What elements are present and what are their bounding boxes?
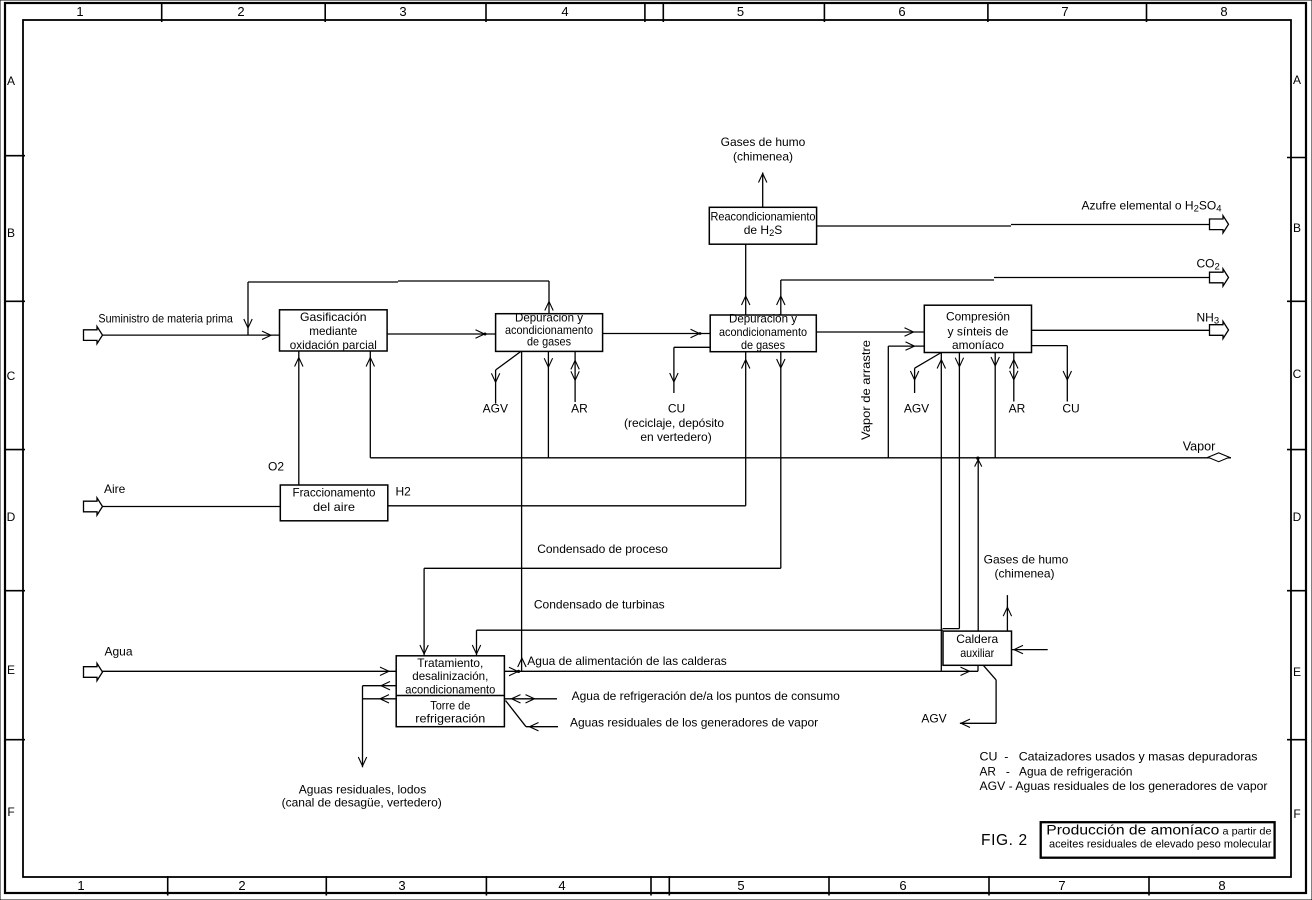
svg-text:y sínteis de: y sínteis de bbox=[948, 324, 1009, 338]
output block arrow CO2 bbox=[1210, 269, 1229, 286]
svg-text:mediante: mediante bbox=[309, 324, 357, 338]
svg-text:CU: CU bbox=[668, 401, 685, 415]
wire cooling water double arrow at Tratamiento bbox=[504, 698, 557, 700]
wire recycle vertical from Depuracion-1 top bbox=[548, 281, 550, 314]
svg-text:3: 3 bbox=[398, 878, 405, 893]
svg-text:A: A bbox=[1293, 73, 1301, 87]
output block arrow NH3 bbox=[1210, 321, 1229, 338]
svg-text:3: 3 bbox=[399, 4, 406, 19]
svg-text:acondicionamento: acondicionamento bbox=[719, 325, 807, 339]
svg-text:C: C bbox=[1293, 367, 1302, 381]
svg-text:a partir de: a partir de bbox=[1223, 825, 1272, 837]
svg-text:CU - Cataizadores usados y: CU - Cataizadores usados y masas depurad… bbox=[980, 750, 1258, 764]
svg-text:acondicionamento: acondicionamento bbox=[405, 682, 495, 696]
wire Azufre output line bbox=[817, 225, 1011, 227]
svg-text:AGV: AGV bbox=[483, 402, 508, 416]
svg-text:2: 2 bbox=[238, 878, 245, 893]
svg-text:7: 7 bbox=[1061, 4, 1068, 19]
wire fuel input into Caldera right bbox=[1012, 649, 1048, 651]
wire steam into Gasificacion bottom from Vapor header bbox=[369, 351, 371, 458]
svg-text:AGV: AGV bbox=[904, 402, 929, 416]
wire CO2 output line bbox=[781, 279, 994, 281]
wire waste drain left from Tratamiento (lower) bbox=[363, 698, 397, 700]
wire boiler feedwater header line bbox=[504, 670, 978, 672]
wire feed line to Gasificacion bbox=[103, 334, 280, 336]
wire boiler feedwater riser into Compresion bbox=[940, 353, 942, 671]
wire CU drain from Compresion right bbox=[1032, 345, 1068, 347]
svg-text:B: B bbox=[1293, 221, 1301, 235]
svg-text:6: 6 bbox=[898, 4, 905, 19]
svg-text:Gases de humo: Gases de humo bbox=[721, 135, 806, 149]
svg-text:Gases de humo: Gases de humo bbox=[984, 553, 1069, 567]
wire AGV drain from Depuracion-1 bottom bbox=[496, 351, 521, 370]
svg-text:4: 4 bbox=[558, 878, 565, 893]
wire steam from Compresion down to Vapor header bbox=[994, 353, 996, 458]
svg-text:Agua: Agua bbox=[105, 645, 133, 659]
process box Tratamiento desalinizacion acondicionamento / Torre de refrigeracion bbox=[396, 656, 504, 727]
wire steam down from Depuracion-1 to Vapor header bbox=[547, 351, 549, 457]
svg-text:FIG. 2: FIG. 2 bbox=[981, 832, 1028, 849]
svg-text:F: F bbox=[7, 805, 14, 819]
process box Compresion y sinteis de amoniaco bbox=[924, 305, 1031, 352]
process box Depuracion y acondicionamento de gases (1) bbox=[496, 314, 603, 352]
svg-text:Aguas residuales de los genera: Aguas residuales de los generadores de v… bbox=[570, 716, 818, 730]
svg-text:Azufre elemental o H2SO4: Azufre elemental o H2SO4 bbox=[1082, 199, 1222, 215]
process box Gasificacion mediante oxidacion parcial bbox=[280, 310, 388, 351]
svg-text:1: 1 bbox=[76, 4, 83, 19]
svg-text:D: D bbox=[1293, 510, 1302, 524]
wire chimney arrow above Reacondicionamiento bbox=[762, 173, 764, 208]
wire CO2 riser from Depuracion-2 top bbox=[780, 280, 782, 315]
svg-text:Condensado de proceso: Condensado de proceso bbox=[537, 542, 668, 556]
wire NH3 output line bbox=[1032, 329, 1210, 331]
wire process condensate down from Depuracion-2 bbox=[780, 352, 782, 569]
svg-text:CU: CU bbox=[1062, 402, 1079, 416]
svg-text:H2: H2 bbox=[396, 485, 412, 499]
svg-text:(chimenea): (chimenea) bbox=[733, 150, 793, 164]
wire Gasificacion to Depuracion-1 bbox=[387, 333, 496, 335]
wire waste drain left from Tratamiento (upper) bbox=[363, 685, 397, 687]
svg-text:desalinización,: desalinización, bbox=[412, 669, 488, 683]
wire recycle vertical drop at feed junction bbox=[247, 282, 249, 335]
svg-text:de gases: de gases bbox=[527, 335, 571, 349]
svg-text:amoníaco: amoníaco bbox=[952, 338, 1004, 352]
svg-text:4: 4 bbox=[561, 4, 568, 19]
wire Vapor header line bbox=[370, 457, 1231, 459]
wire AGV blowdown from Caldera bbox=[983, 665, 996, 680]
svg-text:Agua de alimentación de las ca: Agua de alimentación de las calderas bbox=[527, 654, 726, 668]
svg-text:E: E bbox=[1293, 665, 1301, 679]
wire O2 into Gasificacion bottom bbox=[298, 351, 300, 485]
process box Depuracion y acondicionamento de gases (2) bbox=[710, 315, 816, 352]
svg-text:aceites residuales de elevado: aceites residuales de elevado peso molec… bbox=[1049, 838, 1272, 850]
svg-text:5: 5 bbox=[737, 878, 744, 893]
svg-text:Reacondicionamiento: Reacondicionamiento bbox=[711, 209, 816, 223]
wire chimney arrow above Caldera bbox=[1006, 595, 1008, 631]
title box Produccion de amoniaco bbox=[1041, 822, 1275, 858]
svg-text:Fraccionamento: Fraccionamento bbox=[293, 485, 376, 499]
svg-text:oxidación parcial: oxidación parcial bbox=[290, 338, 377, 352]
wire condensate down from Depuracion-1 (to feedwater header) bbox=[521, 351, 523, 671]
wire steam from Caldera to Vapor header bbox=[977, 458, 979, 631]
svg-text:Condensado de turbinas: Condensado de turbinas bbox=[534, 598, 665, 612]
svg-text:Tratamiento,: Tratamiento, bbox=[417, 656, 483, 670]
process box Caldera auxiliar bbox=[943, 631, 1012, 665]
input block arrow: Aire bbox=[84, 498, 103, 515]
wire H2S vertical between Reacondicionamiento and Depuracion-2 bbox=[745, 244, 747, 315]
svg-text:refrigeración: refrigeración bbox=[415, 712, 485, 726]
svg-text:(canal de desagüe, vertedero): (canal de desagüe, vertedero) bbox=[282, 796, 442, 810]
svg-text:AR: AR bbox=[571, 402, 588, 416]
wire Agua feed line to Tratamiento bbox=[103, 670, 397, 672]
svg-text:del aire: del aire bbox=[313, 500, 355, 514]
wire Condensado de proceso line bbox=[424, 567, 781, 569]
wire AGV return into Tratamiento bbox=[526, 726, 558, 728]
process box Reacondicionamiento de H2S bbox=[709, 207, 816, 244]
svg-text:Torre de: Torre de bbox=[430, 698, 470, 712]
svg-text:Caldera: Caldera bbox=[956, 632, 998, 646]
svg-text:C: C bbox=[7, 369, 16, 383]
wire waste drain vertical to Aguas residuales lodos bbox=[362, 686, 364, 768]
svg-text:B: B bbox=[7, 226, 15, 240]
svg-text:de H2S: de H2S bbox=[744, 223, 783, 238]
svg-text:Agua de refrigeración de/a los: Agua de refrigeración de/a los puntos de… bbox=[572, 689, 840, 703]
wire Depuracion-1 to Depuracion-2 bbox=[603, 333, 711, 335]
svg-text:D: D bbox=[7, 510, 16, 524]
wire AGV drain from Compresion bottom bbox=[915, 353, 942, 369]
svg-text:AR - Agua de refrigeración: AR - Agua de refrigeración bbox=[980, 765, 1133, 779]
svg-text:(reciclaje, depósito: (reciclaje, depósito bbox=[624, 416, 724, 430]
svg-text:Compresión: Compresión bbox=[946, 309, 1010, 323]
svg-text:Aire: Aire bbox=[104, 482, 126, 496]
svg-text:7: 7 bbox=[1058, 878, 1065, 893]
svg-text:5: 5 bbox=[737, 4, 744, 19]
svg-text:8: 8 bbox=[1220, 4, 1227, 19]
svg-text:6: 6 bbox=[899, 878, 906, 893]
svg-text:de gases: de gases bbox=[741, 338, 785, 352]
output block arrow Azufre elemental o H2SO4 bbox=[1210, 216, 1229, 233]
wire H2 riser into Depuracion-2 bottom bbox=[745, 352, 747, 506]
svg-text:2: 2 bbox=[237, 4, 244, 19]
svg-text:Vapor: Vapor bbox=[1183, 440, 1216, 454]
wire AR double arrow under Compresion bbox=[1013, 353, 1015, 402]
wire Aire feed line bbox=[103, 506, 281, 508]
wire H2 line from Fraccionamiento to Depuracion-2 riser bbox=[388, 505, 746, 507]
wire recycle horizontal line bbox=[248, 281, 398, 283]
svg-text:(chimenea): (chimenea) bbox=[994, 567, 1054, 581]
svg-text:Producción de amoníaco: Producción de amoníaco bbox=[1046, 822, 1219, 837]
svg-text:8: 8 bbox=[1218, 878, 1225, 893]
svg-text:en vertedero): en vertedero) bbox=[640, 430, 711, 444]
svg-text:O2: O2 bbox=[268, 460, 284, 474]
svg-text:Depuración y: Depuración y bbox=[729, 311, 797, 325]
svg-text:Vapor de arrastre: Vapor de arrastre bbox=[859, 340, 873, 440]
input block arrow: Surministro de materia prima bbox=[84, 327, 103, 344]
svg-text:Aguas residuales, lodos: Aguas residuales, lodos bbox=[299, 783, 426, 797]
process box Fraccionamento del aire bbox=[280, 485, 388, 521]
wire Depuracion-2 to Compresion bbox=[816, 331, 924, 333]
svg-text:Suministro de materia prima: Suministro de materia prima bbox=[98, 312, 233, 326]
svg-text:auxiliar: auxiliar bbox=[960, 646, 994, 660]
output diamond marker Vapor bbox=[1208, 453, 1229, 462]
wire Vapor de arrastre riser into Compresion bbox=[887, 346, 889, 458]
svg-text:1: 1 bbox=[77, 878, 84, 893]
svg-text:AGV: AGV bbox=[921, 712, 946, 726]
wire purge gas down from Compresion to Caldera bbox=[958, 353, 960, 629]
input block arrow: Agua bbox=[84, 663, 103, 680]
wire AR double arrow under Depuracion-1 bbox=[574, 351, 576, 402]
svg-text:E: E bbox=[7, 663, 15, 677]
svg-text:Gasificación: Gasificación bbox=[300, 310, 367, 324]
svg-text:F: F bbox=[1293, 807, 1300, 821]
wire CU drain from Depuracion-2 left bbox=[674, 346, 710, 348]
wire Condensado de turbinas line bbox=[477, 629, 943, 631]
svg-text:AGV - Aguas residuales de los: AGV - Aguas residuales de los generadore… bbox=[980, 779, 1268, 793]
svg-text:AR: AR bbox=[1009, 402, 1026, 416]
svg-text:A: A bbox=[7, 74, 15, 88]
